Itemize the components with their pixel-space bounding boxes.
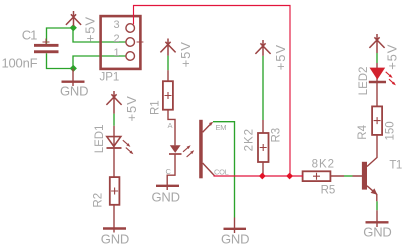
svg-text:A: A: [168, 121, 173, 130]
svg-text:1: 1: [114, 47, 120, 59]
svg-text:+5V: +5V: [384, 44, 399, 70]
svg-text:GND: GND: [363, 225, 391, 240]
svg-text:T1: T1: [389, 159, 402, 171]
svg-text:COL: COL: [214, 167, 229, 176]
svg-text:R2: R2: [93, 193, 105, 208]
svg-text:GND: GND: [101, 232, 129, 245]
svg-text:EM: EM: [216, 123, 227, 132]
svg-text:+5V: +5V: [83, 16, 98, 42]
svg-text:C: C: [166, 167, 172, 176]
svg-text:+5V: +5V: [273, 44, 288, 70]
svg-text:R4: R4: [357, 124, 369, 139]
svg-text:100nF: 100nF: [2, 55, 38, 70]
svg-text:8K2: 8K2: [312, 158, 335, 170]
svg-text:2K2: 2K2: [244, 128, 256, 151]
svg-text:C1: C1: [22, 27, 37, 42]
svg-text:2: 2: [114, 33, 120, 45]
svg-text:LED1: LED1: [94, 125, 106, 154]
svg-text:LED2: LED2: [358, 67, 370, 96]
svg-text:R1: R1: [149, 100, 161, 115]
svg-text:+5V: +5V: [124, 95, 139, 121]
svg-text:JP1: JP1: [100, 71, 120, 83]
svg-text:R3: R3: [271, 128, 283, 143]
svg-text:3: 3: [114, 19, 120, 31]
svg-text:GND: GND: [60, 84, 88, 99]
svg-text:GND: GND: [152, 189, 180, 204]
svg-text:150: 150: [385, 121, 397, 140]
svg-text:+5V: +5V: [178, 41, 193, 67]
svg-text:GND: GND: [221, 231, 249, 245]
svg-text:R5: R5: [321, 185, 336, 197]
